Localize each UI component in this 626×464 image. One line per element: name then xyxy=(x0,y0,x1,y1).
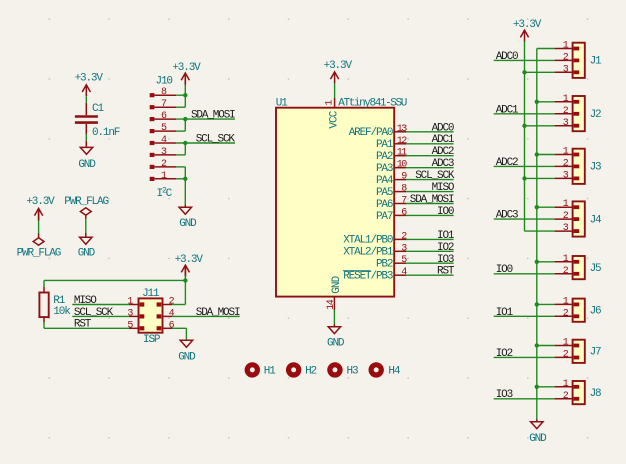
junction GND bus J2.1 xyxy=(535,100,539,104)
svg-text:ADC1: ADC1 xyxy=(496,104,519,116)
wire +3.3V to PWR_FLAG xyxy=(38,208,40,237)
svg-text:10k: 10k xyxy=(53,306,71,318)
pin U1.13 AREF/PA0 xyxy=(349,124,408,139)
svg-text:PA7: PA7 xyxy=(376,211,393,223)
pin U1.1 VCC xyxy=(325,98,341,128)
svg-text:J6: J6 xyxy=(590,306,601,318)
svg-text:AREF/PA0: AREF/PA0 xyxy=(349,127,393,139)
connector J6 xyxy=(555,296,601,321)
wire net IO2 xyxy=(494,356,555,358)
junction J10 pin 4 xyxy=(183,141,187,145)
wire net RST xyxy=(406,274,454,276)
wire J1.3 to +3.3V bus xyxy=(525,71,555,73)
svg-text:13: 13 xyxy=(397,124,408,135)
svg-text:10: 10 xyxy=(397,160,408,171)
connector J7 xyxy=(555,338,601,363)
power +3.3V (C1) xyxy=(75,72,104,96)
svg-text:PA6: PA6 xyxy=(376,199,393,211)
svg-text:PB2: PB2 xyxy=(376,259,393,271)
svg-text:PWR_FLAG: PWR_FLAG xyxy=(17,247,61,259)
wire +3.3V down to node xyxy=(184,265,186,280)
svg-text:PA3: PA3 xyxy=(376,163,393,175)
pin U1.3 XTAL2/PB1 xyxy=(343,243,407,258)
wire net IO1 xyxy=(494,315,555,317)
wire J3.3 to +3.3V bus xyxy=(525,177,555,179)
ground (J11) xyxy=(178,340,196,363)
wire J2.3 to +3.3V bus xyxy=(525,125,555,127)
svg-text:SCL_SCK: SCL_SCK xyxy=(74,307,114,319)
wire net SDA_MOSI xyxy=(406,203,454,205)
capacitor C1 xyxy=(75,103,105,134)
connector J2 xyxy=(555,94,601,131)
wire J6.1 to GND bus xyxy=(537,303,555,305)
wire net ADC1 xyxy=(494,113,555,115)
svg-text:GND: GND xyxy=(179,218,197,230)
svg-text:ADC2: ADC2 xyxy=(496,157,518,169)
svg-text:MISO: MISO xyxy=(432,182,455,194)
wire J11 pin2 to +3.3V node xyxy=(172,280,185,304)
svg-text:U1: U1 xyxy=(276,98,288,110)
svg-text:ADC0: ADC0 xyxy=(432,122,454,134)
connector J10 xyxy=(150,76,177,182)
svg-text:H3: H3 xyxy=(347,366,358,378)
svg-text:ATtiny841-SSU: ATtiny841-SSU xyxy=(338,98,406,110)
connector J3 xyxy=(555,147,601,184)
connector J8 xyxy=(555,379,601,404)
junction GND bus J6.1 xyxy=(535,302,539,306)
wire SDA_MOSI (J10 pins 6-5) xyxy=(176,119,235,131)
svg-text:H2: H2 xyxy=(305,366,316,378)
ground (U1) xyxy=(327,327,345,350)
wire net ADC2 xyxy=(494,165,555,167)
wire net ADC0 xyxy=(406,131,454,133)
wire net ADC3 xyxy=(406,167,454,169)
svg-text:J8: J8 xyxy=(590,388,601,400)
svg-text:J10: J10 xyxy=(156,76,173,88)
pin U1.5 PB2 xyxy=(376,255,407,270)
junction GND bus J4.1 xyxy=(535,205,539,209)
wire +3.3V to U1 VCC xyxy=(334,83,336,99)
svg-text:+3.3V: +3.3V xyxy=(324,60,353,72)
junction +3.3V bus J1.3 xyxy=(522,70,526,74)
power +3.3V (J1-J4 bus) xyxy=(513,19,542,42)
wire J3.1 to GND bus xyxy=(537,154,555,156)
wire R1 top to +3.3V node xyxy=(44,280,185,292)
wire SCL_SCK (J11) xyxy=(72,315,129,317)
svg-text:12: 12 xyxy=(397,136,408,147)
power flag PWR_FLAG (GND) xyxy=(64,196,108,215)
svg-text:SDA_MOSI: SDA_MOSI xyxy=(410,194,454,206)
junction J10 pin 1 xyxy=(183,177,187,181)
wire J8.1 to GND bus xyxy=(537,386,555,388)
wire SDA_MOSI (J11 pin4) xyxy=(172,315,240,317)
mounting hole H3 xyxy=(330,365,358,378)
svg-text:GND: GND xyxy=(78,247,96,259)
wire J2.1 to GND bus xyxy=(537,101,555,103)
svg-text:+3.3V: +3.3V xyxy=(75,72,104,84)
wire U1 GND xyxy=(333,310,335,327)
pin U1.10 PA3 xyxy=(376,160,407,175)
svg-text:PA2: PA2 xyxy=(376,151,393,163)
connector J1 xyxy=(555,41,602,78)
svg-text:GND: GND xyxy=(331,275,343,293)
wire +3.3V bus xyxy=(524,41,526,231)
svg-text:IO0: IO0 xyxy=(496,264,513,276)
svg-text:RST: RST xyxy=(74,319,92,331)
wire net ADC0 xyxy=(494,59,555,61)
pin U1.7 PA6 xyxy=(376,196,407,211)
wire J7.1 to GND bus xyxy=(537,345,555,347)
connector J5 xyxy=(555,254,601,279)
wire PWR_FLAG to GND xyxy=(85,215,87,237)
mounting hole H2 xyxy=(289,365,317,378)
svg-text:GND: GND xyxy=(178,351,196,363)
wire net IO3 xyxy=(406,262,454,264)
wire J11 pin6 to GND xyxy=(172,328,186,340)
svg-text:ADC0: ADC0 xyxy=(496,51,518,63)
power +3.3V (U1) xyxy=(324,60,353,83)
wire net ADC3 xyxy=(494,218,555,220)
svg-text:IO3: IO3 xyxy=(437,254,454,266)
svg-text:14: 14 xyxy=(326,299,337,310)
ground (right bus) xyxy=(529,422,547,446)
IC U1 body xyxy=(276,108,394,297)
pin U1.6 PA7 xyxy=(376,207,407,222)
svg-text:ADC3: ADC3 xyxy=(496,210,518,222)
pin U1.14 GND xyxy=(326,275,343,310)
svg-text:J5: J5 xyxy=(590,263,601,275)
svg-text:PWR_FLAG: PWR_FLAG xyxy=(64,196,108,208)
mounting hole H4 xyxy=(371,365,401,378)
junction +3.3V / R1 / J11 pin2 xyxy=(183,278,187,282)
svg-text:GND: GND xyxy=(78,159,96,171)
junction J10 pin 8 xyxy=(183,93,187,97)
wire J4.1 to GND bus xyxy=(537,206,555,208)
wire RST xyxy=(44,327,129,329)
connector J4 xyxy=(555,199,602,236)
svg-text:H1: H1 xyxy=(264,366,276,378)
svg-text:VCC: VCC xyxy=(329,110,341,128)
pin U1.4 RESET/PB3 xyxy=(343,267,407,282)
svg-text:PA4: PA4 xyxy=(376,175,394,187)
power +3.3V (flag) xyxy=(26,196,55,220)
svg-text:H4: H4 xyxy=(388,366,400,378)
svg-text:11: 11 xyxy=(397,148,408,159)
svg-text:J2: J2 xyxy=(590,109,601,121)
svg-text:RESET/PB3: RESET/PB3 xyxy=(343,271,393,283)
svg-text:IO2: IO2 xyxy=(437,242,454,254)
wire SCL_SCK (J10 pins 4-3) xyxy=(176,143,235,155)
junction +3.3V bus J3.3 xyxy=(522,176,526,180)
power +3.3V (J11) xyxy=(175,254,204,277)
junction GND bus J7.1 xyxy=(535,343,539,347)
svg-text:+3.3V: +3.3V xyxy=(172,62,201,74)
pin U1.12 PA1 xyxy=(376,136,407,151)
svg-text:XTAL1/PB0: XTAL1/PB0 xyxy=(343,235,393,247)
mounting hole H1 xyxy=(247,365,276,378)
svg-text:C1: C1 xyxy=(92,103,104,115)
junction GND bus J3.1 xyxy=(535,152,539,156)
svg-text:IO1: IO1 xyxy=(496,307,514,319)
svg-text:0.1nF: 0.1nF xyxy=(92,127,120,139)
wire net MISO xyxy=(406,191,454,193)
svg-text:J1: J1 xyxy=(590,56,602,68)
wire net IO1 xyxy=(406,238,454,240)
wire J1.1 to GND bus xyxy=(537,48,555,50)
svg-text:GND: GND xyxy=(529,433,547,445)
svg-text:ADC1: ADC1 xyxy=(432,134,455,146)
resistor R1 xyxy=(39,293,65,318)
svg-text:ADC2: ADC2 xyxy=(432,146,454,158)
pin U1.8 PA5 xyxy=(376,184,407,199)
junction +3.3V bus J2.3 xyxy=(522,124,526,128)
wire C1 to GND xyxy=(85,134,87,147)
wire R1 bottom to RST xyxy=(43,317,45,328)
wire net IO0 xyxy=(494,273,555,275)
svg-text:SCL_SCK: SCL_SCK xyxy=(196,133,236,145)
power +3.3V (J10) xyxy=(172,62,201,84)
junction GND bus J8.1 xyxy=(535,385,539,389)
wire MISO xyxy=(72,304,129,306)
svg-text:IO1: IO1 xyxy=(437,230,455,242)
ground (C1) xyxy=(78,147,96,170)
svg-text:MISO: MISO xyxy=(74,295,97,307)
ground (flag) xyxy=(78,237,96,259)
svg-text:RST: RST xyxy=(437,266,455,278)
junction J10 pin 6 xyxy=(183,117,187,121)
svg-text:SCL_SCK: SCL_SCK xyxy=(415,170,455,182)
svg-text:ADC3: ADC3 xyxy=(432,158,454,170)
ground (J10) xyxy=(179,207,197,230)
svg-text:J4: J4 xyxy=(590,214,602,226)
svg-text:+3.3V: +3.3V xyxy=(26,196,55,208)
wire net IO2 xyxy=(406,250,454,252)
svg-text:+3.3V: +3.3V xyxy=(513,19,542,31)
junction GND bus J5.1 xyxy=(535,260,539,264)
svg-text:J7: J7 xyxy=(590,347,601,359)
svg-text:PA1: PA1 xyxy=(376,139,394,151)
pin U1.2 XTAL1/PB0 xyxy=(343,231,407,246)
svg-text:+3.3V: +3.3V xyxy=(175,254,204,266)
svg-text:IO2: IO2 xyxy=(496,348,513,360)
svg-text:J3: J3 xyxy=(590,162,601,174)
wire net IO0 xyxy=(406,214,454,216)
svg-text:PA5: PA5 xyxy=(376,187,393,199)
wire net ADC1 xyxy=(406,143,454,145)
pin U1.11 PA2 xyxy=(376,148,407,163)
wire net IO3 xyxy=(494,398,555,400)
wire GND bus xyxy=(536,49,538,422)
power flag PWR_FLAG (3.3V) xyxy=(17,238,61,260)
svg-text:SDA_MOSI: SDA_MOSI xyxy=(191,110,235,122)
svg-text:IO0: IO0 xyxy=(437,206,454,218)
wire net SCL_SCK xyxy=(406,179,454,181)
svg-text:XTAL2/PB1: XTAL2/PB1 xyxy=(343,247,394,259)
wire J4.3 to +3.3V bus xyxy=(525,230,555,232)
wire J5.1 to GND bus xyxy=(537,261,555,263)
pin U1.9 PA4 xyxy=(376,172,407,187)
svg-text:SDA_MOSI: SDA_MOSI xyxy=(196,307,240,319)
svg-text:J11: J11 xyxy=(142,288,160,300)
svg-text:GND: GND xyxy=(327,337,345,349)
svg-text:ISP: ISP xyxy=(143,334,161,346)
connector J11 xyxy=(127,288,174,332)
wire J10 pins 2-1 to GND xyxy=(176,167,185,207)
wire +3.3V to C1 xyxy=(85,96,87,115)
svg-text:IO3: IO3 xyxy=(496,389,513,401)
wire net ADC2 xyxy=(406,155,454,157)
wire +3.3V to J10 pins 8-7 xyxy=(176,73,185,107)
